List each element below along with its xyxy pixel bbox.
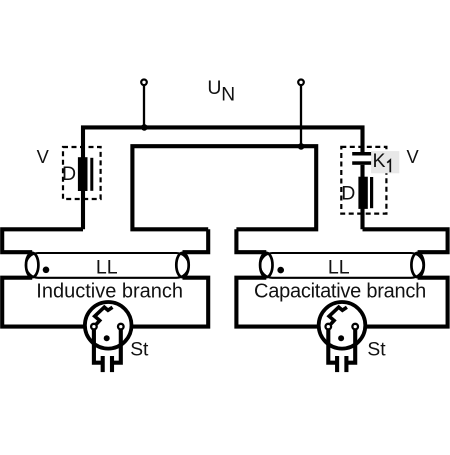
lamp electrode ellipse (right lamp, right end)	[411, 253, 423, 277]
terminal T2 (right supply terminal)	[298, 80, 304, 86]
starter terminal ring right (left starter)	[118, 324, 124, 330]
lamp electrode ellipse (left lamp, left end)	[26, 253, 38, 277]
lamp LL tube (right)	[260, 253, 423, 278]
wire right lamp-block top left (inner loop to left electrode)	[236, 229, 266, 252]
svg-text:N: N	[221, 84, 235, 105]
starter dot (left)	[104, 335, 110, 341]
svg-text:U: U	[207, 77, 221, 99]
wire left lamp-block right side down (electrode bottom to starter bus)	[124, 278, 209, 327]
lamp electrode ellipse (left lamp, right end)	[176, 253, 188, 277]
ballast V dashed enclosure (right)	[341, 147, 386, 214]
svg-text:V: V	[407, 146, 420, 167]
terminal T1 (left supply terminal)	[141, 80, 147, 86]
wire inner loop (connects right electrode of left lamp to left electrode of right lamp)	[132, 146, 316, 229]
starter base pins (right)	[328, 329, 337, 363]
label K1 highlight box	[371, 151, 399, 173]
wire right lamp-block left side down (electrode bottom to starter bus)	[236, 278, 325, 327]
svg-text:Capacitative branch: Capacitative branch	[254, 280, 426, 302]
wire left lamp-block left side down (electrode bottom to starter bus)	[2, 278, 91, 327]
starter terminal ring left (right starter)	[326, 324, 332, 330]
wire right lamp-block right side down (electrode bottom to starter bus)	[358, 278, 448, 327]
svg-text:St: St	[367, 340, 386, 361]
wire left lamp-block top right (inner loop to right electrode)	[183, 229, 209, 252]
svg-text:D: D	[62, 163, 76, 185]
lamp cathode dot (left lamp)	[43, 267, 50, 274]
choke D (left): core bar	[78, 157, 88, 191]
svg-text:V: V	[37, 146, 50, 167]
lamp LL tube (left)	[26, 253, 189, 278]
starter St circle (left)	[85, 302, 132, 349]
choke D (right): side bar	[370, 177, 373, 208]
starter glow-switch bimetal zigzag (left)	[94, 307, 113, 327]
svg-text:Inductive branch: Inductive branch	[36, 280, 183, 302]
wire right lamp-block top right (ballast drop to right electrode)	[363, 229, 448, 252]
starter terminal ring left (left starter)	[91, 324, 97, 330]
capacitor K1 bottom plate	[352, 161, 373, 165]
junction dot at T2/inner loop	[298, 143, 305, 150]
starter St circle (right)	[319, 302, 366, 349]
starter terminal ring right (right starter)	[352, 324, 358, 330]
junction dot at T1/bus	[141, 124, 148, 131]
wire phase bus (top horizontal, left drop through ballast to lamp block, right drop to capacitor)	[83, 127, 363, 229]
choke D (left): side bar	[90, 158, 93, 191]
starter base pins (left)	[94, 329, 103, 363]
svg-text:LL: LL	[328, 257, 350, 279]
svg-text:St: St	[130, 340, 149, 361]
starter dot (right)	[338, 335, 344, 341]
wire from T2 down to inner loop	[300, 85, 302, 146]
wire from capacitor K1 bottom plate down to right lamp block	[360, 165, 364, 230]
starter glow-switch bimetal zigzag (right)	[328, 307, 347, 327]
wire from T1 down to phase bus	[143, 85, 145, 127]
wire left lamp-block top left (ballast to left electrode)	[2, 229, 83, 252]
lamp cathode dot (right lamp)	[277, 267, 284, 274]
capacitor K1 top plate	[352, 152, 373, 156]
lamp electrode ellipse (right lamp, left end)	[260, 253, 272, 277]
ballast V dashed enclosure (left)	[63, 147, 101, 199]
svg-text:K: K	[373, 150, 386, 172]
choke D (right): core bar	[358, 177, 367, 209]
svg-text:D: D	[341, 182, 355, 204]
svg-text:LL: LL	[96, 257, 118, 279]
